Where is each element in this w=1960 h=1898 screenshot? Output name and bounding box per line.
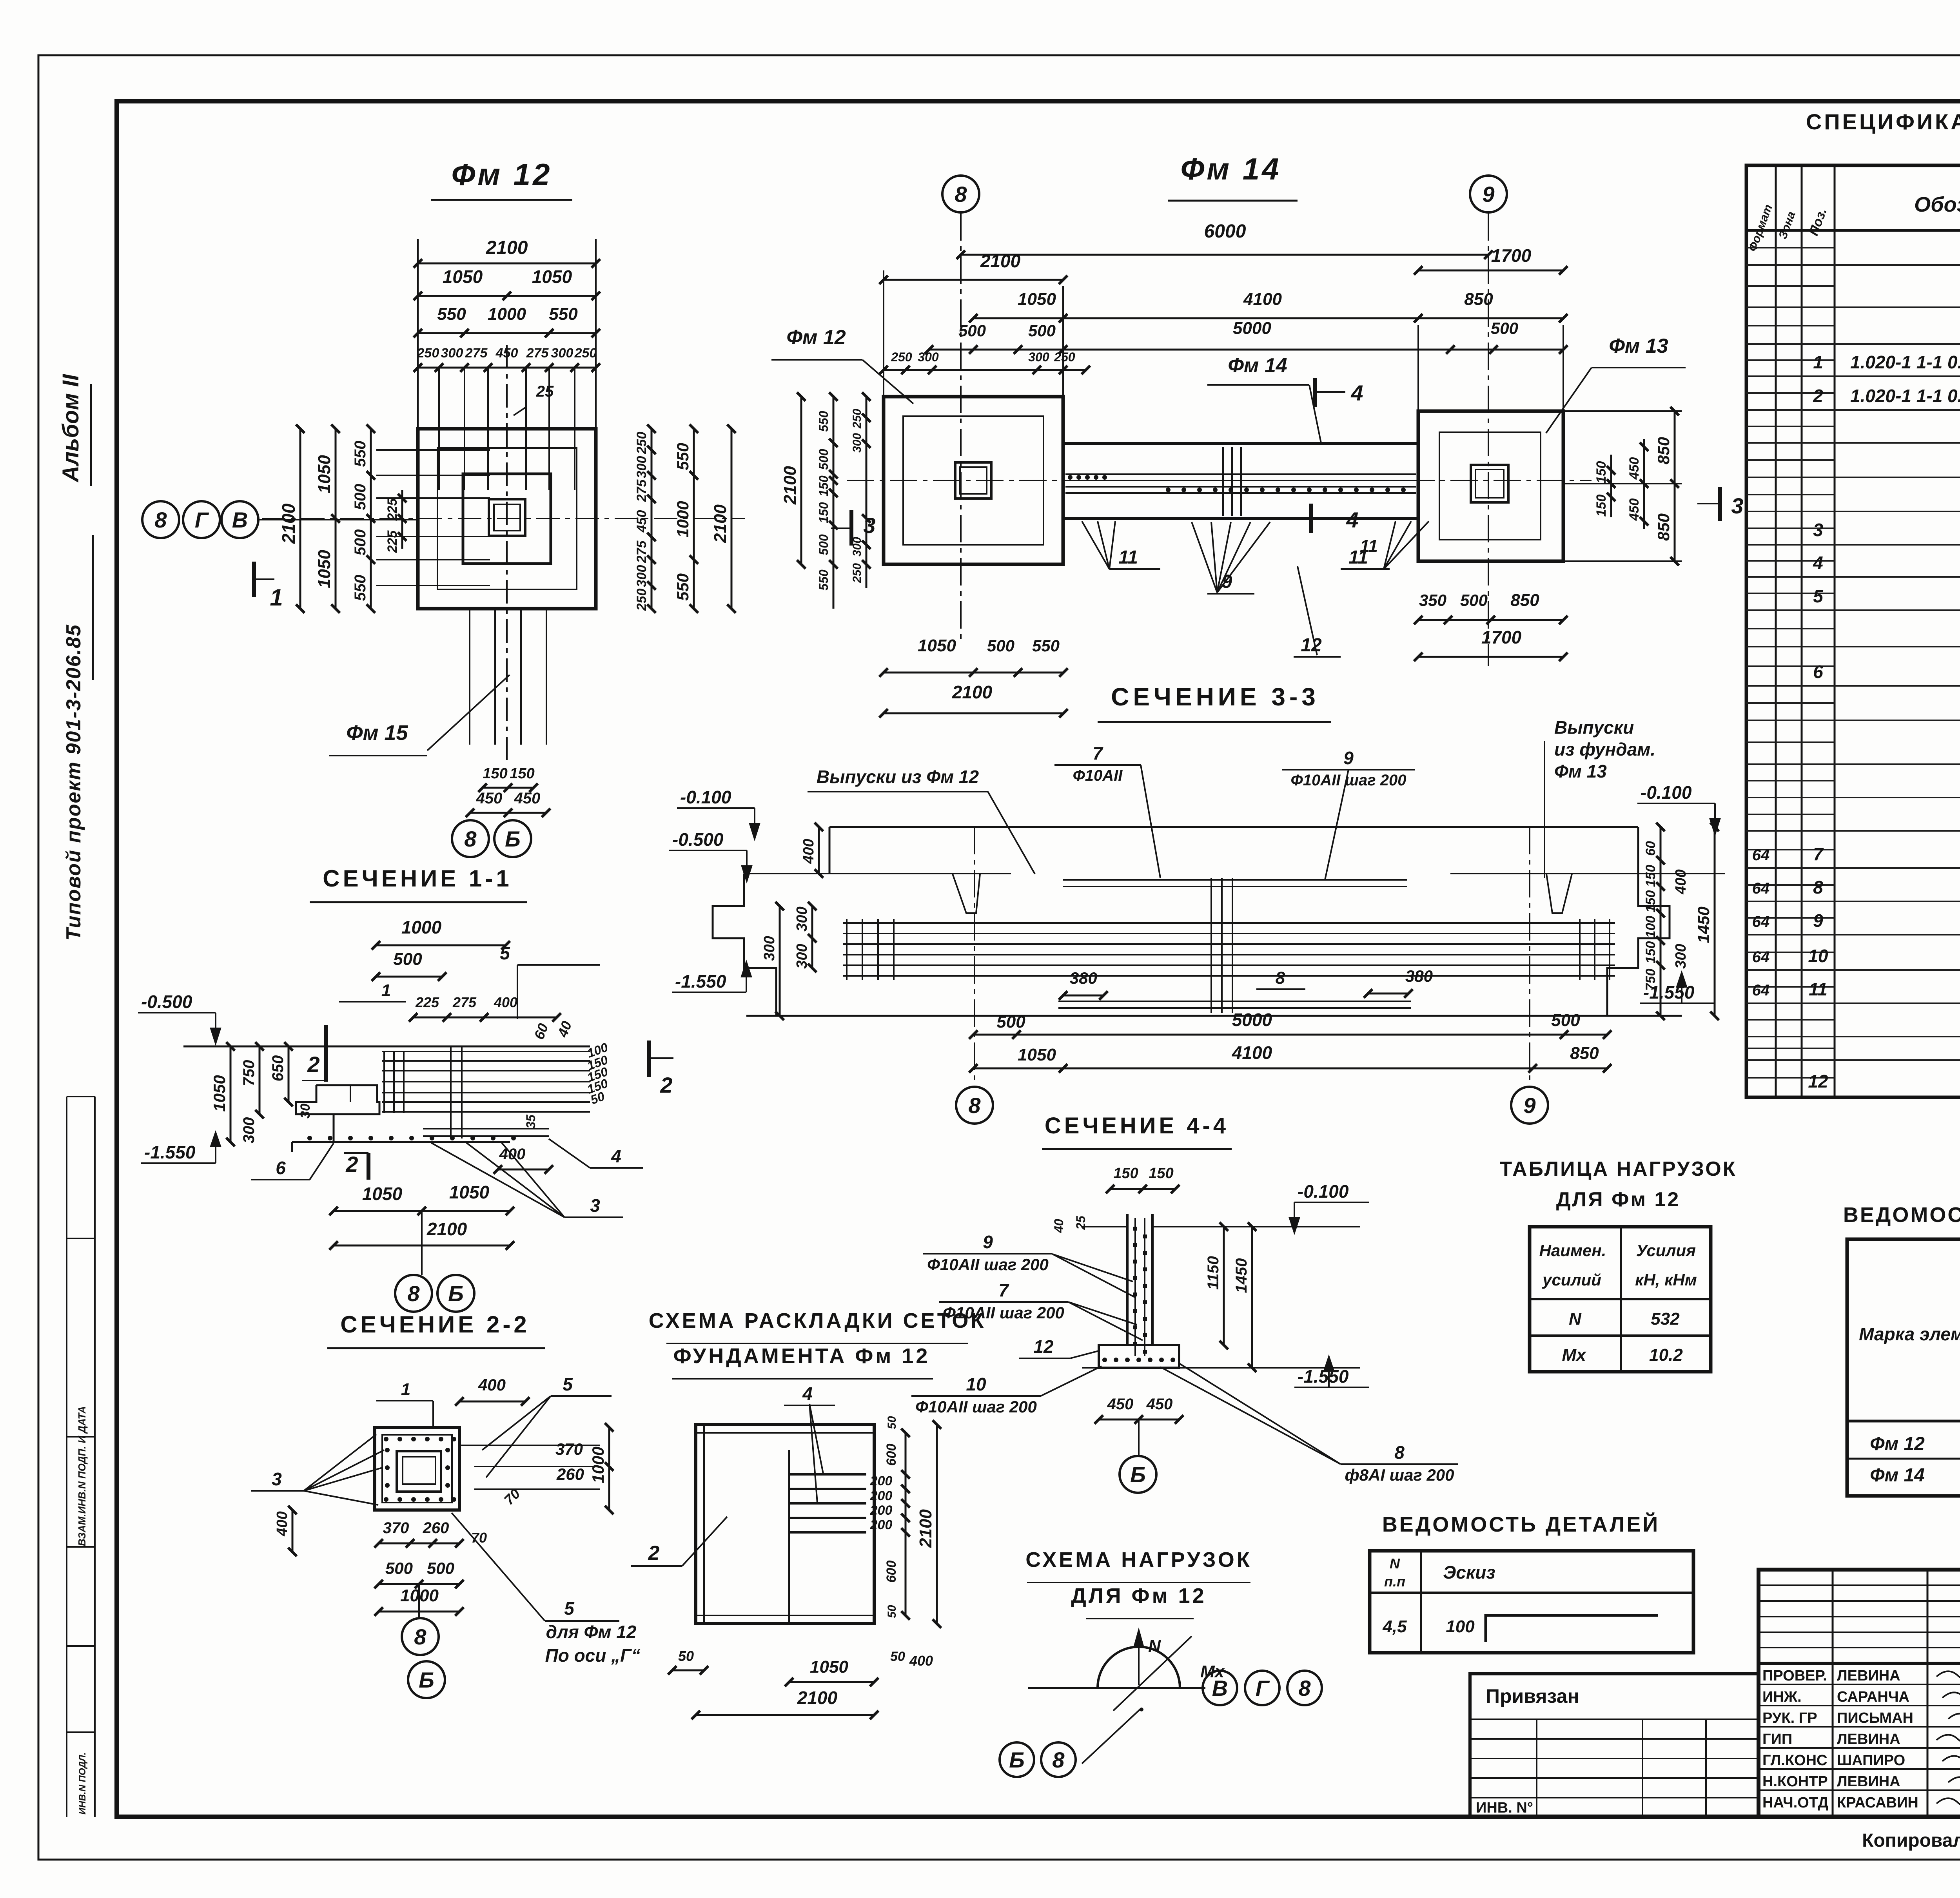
svg-text:ТАБЛИЦА НАГРУЗОК: ТАБЛИЦА НАГРУЗОК — [1500, 1158, 1737, 1180]
S11 section mark 2 top — [324, 1025, 328, 1082]
svg-text:8: 8 — [968, 1093, 981, 1118]
svg-text:4100: 4100 — [1243, 290, 1282, 309]
svg-text:250: 250 — [574, 346, 597, 361]
svg-text:850: 850 — [1654, 513, 1673, 541]
svg-text:Б: Б — [1130, 1462, 1146, 1487]
svg-text:2: 2 — [660, 1073, 672, 1097]
svg-text:550: 550 — [437, 305, 466, 324]
title block outer — [1759, 1570, 1960, 1817]
svg-text:3: 3 — [590, 1195, 600, 1216]
svg-text:Фм 13: Фм 13 — [1609, 335, 1668, 357]
svg-text:2100: 2100 — [278, 503, 299, 544]
FM12 axis lines — [262, 518, 745, 519]
S33 middle vertical bars — [1210, 878, 1212, 1013]
svg-text:Б: Б — [419, 1668, 434, 1692]
FM14 strip mesh dots — [1166, 488, 1171, 492]
svg-text:ГЛ.КОНС: ГЛ.КОНС — [1762, 1752, 1827, 1769]
svg-text:Ф10АII: Ф10АII — [1073, 767, 1123, 784]
load scheme diagonal — [1113, 1636, 1192, 1711]
S11 rebar comb lines — [382, 1051, 590, 1052]
svg-text:-1.550: -1.550 — [675, 971, 726, 992]
svg-text:Г: Г — [195, 508, 209, 532]
svg-text:Б: Б — [448, 1281, 464, 1306]
svg-text:Mx: Mx — [1562, 1345, 1586, 1365]
svg-text:Привязан: Привязан — [1486, 1685, 1579, 1707]
S33 left ledge -0.500 — [744, 873, 1011, 874]
svg-text:ЛЕВИНА: ЛЕВИНА — [1837, 1731, 1900, 1748]
spec table frame — [1746, 165, 1960, 1097]
svg-text:200: 200 — [870, 1488, 893, 1503]
svg-text:Фм 14: Фм 14 — [1228, 354, 1287, 377]
FM12 plan middle square — [437, 448, 577, 589]
svg-text:Фм 13: Фм 13 — [1554, 761, 1607, 781]
svg-text:3: 3 — [1731, 493, 1743, 518]
svg-text:300: 300 — [851, 433, 864, 453]
svg-text:1: 1 — [381, 981, 391, 1000]
svg-text:150: 150 — [1113, 1165, 1138, 1182]
svg-text:250: 250 — [851, 409, 864, 429]
FM14 right pad column outer — [1471, 465, 1508, 502]
svg-text:150: 150 — [510, 765, 534, 782]
FM14 left pad column inner — [960, 467, 987, 494]
svg-text:150: 150 — [483, 765, 507, 782]
svg-text:2: 2 — [1813, 386, 1823, 406]
svg-text:275: 275 — [634, 540, 649, 564]
FM12 column section outer — [489, 499, 525, 536]
svg-text:25: 25 — [1074, 1215, 1088, 1230]
details list frame — [1370, 1551, 1693, 1653]
svg-text:8: 8 — [154, 508, 167, 532]
FM14 right pad outer — [1418, 411, 1563, 561]
S33 bottom mesh lines — [1058, 1001, 1411, 1002]
svg-text:275: 275 — [634, 479, 649, 502]
svg-text:ВЕДОМОСТЬ РАСХОДА СТАЛИ НА ЭЛЕ: ВЕДОМОСТЬ РАСХОДА СТАЛИ НА ЭЛЕМЕНТ, КГ — [1843, 1203, 1960, 1227]
svg-text:400: 400 — [274, 1511, 290, 1536]
svg-text:9: 9 — [1523, 1093, 1535, 1118]
svg-text:200: 200 — [870, 1503, 893, 1518]
svg-text:64: 64 — [1752, 948, 1770, 966]
svg-text:Фм 12: Фм 12 — [786, 326, 846, 349]
svg-text:Б: Б — [505, 827, 521, 851]
svg-text:60: 60 — [1643, 841, 1658, 856]
svg-text:500: 500 — [1491, 319, 1518, 337]
S11 axis circles 8 B — [395, 1275, 432, 1312]
svg-text:4100: 4100 — [1232, 1042, 1272, 1063]
mesh scheme right dim line — [905, 1433, 907, 1615]
svg-text:50: 50 — [886, 1416, 898, 1429]
svg-text:5: 5 — [564, 1598, 575, 1619]
svg-text:-0.100: -0.100 — [680, 787, 731, 807]
svg-text:100: 100 — [1643, 916, 1658, 938]
svg-text:550: 550 — [352, 575, 369, 601]
mesh scheme square outer — [696, 1425, 874, 1624]
svg-text:Б: Б — [1009, 1748, 1025, 1772]
svg-text:-0.100: -0.100 — [1298, 1181, 1349, 1202]
svg-text:1: 1 — [1813, 352, 1823, 372]
svg-text:усилий: усилий — [1542, 1271, 1601, 1289]
svg-text:Фм 15: Фм 15 — [346, 721, 408, 745]
svg-text:250: 250 — [634, 432, 649, 455]
svg-text:400: 400 — [800, 839, 817, 864]
svg-text:СХЕМА НАГРУЗОК: СХЕМА НАГРУЗОК — [1025, 1548, 1252, 1572]
svg-text:550: 550 — [549, 305, 578, 324]
svg-text:400: 400 — [478, 1376, 506, 1394]
svg-text:750: 750 — [1643, 969, 1658, 991]
FM14 left pad column outer — [955, 462, 991, 499]
svg-text:1050: 1050 — [1018, 290, 1056, 309]
svg-text:Типовой проект 901-3-206: Типовой проект 901-3-206.85 — [62, 624, 85, 941]
svg-text:1000: 1000 — [488, 305, 526, 324]
S33 right stepped foundation outline — [1607, 874, 1670, 1016]
svg-text:8: 8 — [464, 827, 477, 851]
svg-text:150: 150 — [1149, 1165, 1173, 1182]
svg-text:1050: 1050 — [1018, 1045, 1056, 1064]
svg-text:500: 500 — [427, 1559, 454, 1577]
svg-text:150: 150 — [1594, 495, 1609, 517]
svg-text:8: 8 — [1052, 1748, 1065, 1772]
load scheme half circle — [1098, 1647, 1180, 1688]
S33 chute left — [953, 874, 980, 913]
FM12 plan inner square — [463, 474, 551, 564]
svg-text:1050: 1050 — [362, 1184, 403, 1204]
svg-text:ИНВ.N ПОДЛ.: ИНВ.N ПОДЛ. — [77, 1752, 88, 1815]
svg-text:N: N — [1148, 1637, 1161, 1656]
svg-text:300: 300 — [761, 936, 778, 961]
svg-text:ДЛЯ Фм 12: ДЛЯ Фм 12 — [1071, 1584, 1206, 1608]
svg-text:300: 300 — [918, 350, 939, 364]
svg-text:Ф10АII шаг 200: Ф10АII шаг 200 — [943, 1303, 1064, 1322]
S11 bottom mesh — [423, 1128, 549, 1129]
FM14 right pad column inner — [1475, 470, 1504, 498]
S22 column squares — [397, 1451, 441, 1492]
svg-text:1050: 1050 — [449, 1182, 490, 1202]
svg-text:2: 2 — [307, 1052, 319, 1077]
svg-text:СЕЧЕНИЕ 4-4: СЕЧЕНИЕ 4-4 — [1045, 1113, 1229, 1138]
svg-text:1: 1 — [270, 584, 283, 611]
FM12 axis circles 8 G V — [142, 501, 179, 538]
svg-text:8: 8 — [1813, 877, 1823, 897]
svg-text:Фм 14: Фм 14 — [1870, 1465, 1925, 1486]
svg-text:8: 8 — [955, 182, 967, 207]
svg-text:5000: 5000 — [1233, 319, 1271, 338]
S33 left stepped foundation outline — [713, 874, 776, 1016]
svg-text:8: 8 — [1298, 1676, 1311, 1700]
S33 axis circle 8 — [956, 1087, 993, 1124]
svg-text:50: 50 — [890, 1649, 905, 1664]
svg-text:500: 500 — [958, 321, 986, 340]
privyazan columns — [1536, 1719, 1537, 1817]
svg-text:300: 300 — [794, 906, 810, 931]
svg-text:850: 850 — [1464, 290, 1493, 309]
svg-text:ИНВ. N°: ИНВ. N° — [1476, 1800, 1533, 1816]
svg-text:СЕЧЕНИЕ 3-3: СЕЧЕНИЕ 3-3 — [1111, 683, 1319, 711]
svg-text:500: 500 — [996, 1012, 1025, 1031]
load scheme dot leader — [1082, 1709, 1141, 1764]
svg-text:150: 150 — [1643, 941, 1658, 964]
svg-text:10.2: 10.2 — [1649, 1345, 1683, 1365]
svg-text:600: 600 — [884, 1444, 899, 1466]
svg-text:500: 500 — [987, 636, 1014, 655]
svg-text:Н.КОНТР: Н.КОНТР — [1762, 1773, 1828, 1790]
svg-text:500: 500 — [817, 449, 831, 470]
svg-text:ФУНДАМЕНТА Фм 12: ФУНДАМЕНТА Фм 12 — [673, 1344, 930, 1368]
privyazan table frame — [1470, 1674, 1759, 1817]
FM14 left pad inner — [903, 416, 1044, 545]
svg-text:По оси „Г“: По оси „Г“ — [545, 1645, 641, 1666]
svg-text:ВЗАМ.ИНВ.N ПОДП. И ДАТА: ВЗАМ.ИНВ.N ПОДП. И ДАТА — [76, 1406, 88, 1546]
S11 mesh verticals middle — [450, 1047, 452, 1138]
svg-text:550: 550 — [817, 569, 831, 591]
svg-text:НАЧ.ОТД: НАЧ.ОТД — [1762, 1795, 1828, 1811]
FM14 section mark 4 upper — [1313, 378, 1317, 407]
svg-text:400: 400 — [909, 1653, 933, 1669]
svg-text:КРАСАВИН: КРАСАВИН — [1837, 1795, 1918, 1811]
svg-text:1450: 1450 — [1233, 1258, 1250, 1293]
steel table frame — [1847, 1239, 1960, 1496]
svg-text:850: 850 — [1654, 437, 1673, 464]
svg-text:3: 3 — [1813, 520, 1823, 540]
svg-text:Г: Г — [1256, 1676, 1270, 1700]
load scheme circles B 8 — [1000, 1742, 1034, 1777]
svg-text:Эскиз: Эскиз — [1443, 1562, 1495, 1583]
svg-text:-1.550: -1.550 — [1298, 1366, 1349, 1387]
svg-text:450: 450 — [1627, 457, 1642, 480]
svg-text:2100: 2100 — [780, 466, 800, 505]
title block left mini rows — [1759, 1584, 1960, 1586]
svg-text:300: 300 — [634, 456, 649, 479]
svg-text:2100: 2100 — [980, 251, 1021, 271]
svg-text:для Фм 12: для Фм 12 — [546, 1622, 637, 1642]
svg-text:8: 8 — [407, 1281, 420, 1306]
svg-text:1050: 1050 — [918, 636, 956, 655]
svg-text:300: 300 — [634, 565, 649, 587]
svg-text:1050: 1050 — [315, 550, 334, 588]
privyazan rows — [1470, 1719, 1759, 1720]
svg-text:4,5: 4,5 — [1382, 1617, 1407, 1636]
svg-text:1700: 1700 — [1481, 627, 1522, 647]
svg-text:275: 275 — [526, 346, 549, 361]
title block personnel rows — [1759, 1684, 1960, 1685]
svg-text:2100: 2100 — [916, 1509, 935, 1548]
S11 base slab — [292, 1141, 510, 1143]
FM14 section mark 3 left — [849, 510, 853, 546]
FM14 left pad outer — [884, 397, 1063, 564]
svg-text:9: 9 — [983, 1232, 993, 1252]
svg-text:450: 450 — [634, 510, 649, 533]
svg-text:64: 64 — [1752, 847, 1770, 864]
svg-text:7: 7 — [998, 1280, 1009, 1300]
svg-text:1450: 1450 — [1694, 906, 1713, 943]
svg-text:5: 5 — [563, 1374, 573, 1394]
svg-text:380: 380 — [1070, 969, 1097, 987]
FM14 extension verticals — [1062, 286, 1064, 444]
svg-text:7: 7 — [1093, 743, 1103, 763]
S22 square outer — [375, 1427, 459, 1510]
S33 right ledge — [1450, 873, 1725, 874]
FM14 strip middle vertical bars — [1222, 447, 1224, 516]
svg-text:260: 260 — [556, 1465, 584, 1483]
svg-text:11: 11 — [1118, 547, 1138, 568]
svg-text:225: 225 — [415, 994, 439, 1010]
svg-text:400: 400 — [494, 994, 517, 1010]
S33 axis circle 9 — [1511, 1087, 1548, 1124]
svg-text:ГИП: ГИП — [1762, 1731, 1792, 1748]
svg-text:1000: 1000 — [401, 917, 442, 937]
svg-text:Марка элемента: Марка элемента — [1859, 1324, 1960, 1344]
svg-text:1.020-1 1-1 0.010 -06: 1.020-1 1-1 0.010 -06 — [1850, 352, 1960, 372]
S33 base line -1.550 — [746, 1015, 1682, 1017]
svg-text:850: 850 — [1510, 591, 1539, 610]
svg-text:380: 380 — [1405, 967, 1433, 985]
svg-text:4: 4 — [611, 1146, 621, 1166]
svg-text:Фм 12: Фм 12 — [451, 157, 552, 192]
svg-text:500: 500 — [1460, 591, 1488, 609]
svg-text:30: 30 — [298, 1104, 313, 1118]
spec table row lines — [1746, 264, 1960, 266]
svg-text:40: 40 — [1052, 1219, 1066, 1233]
svg-text:Копировал: Коршунова: Копировал: Коршунова — [1862, 1830, 1960, 1851]
FM12 section mark 1 left — [252, 562, 256, 597]
svg-text:САРАНЧА: САРАНЧА — [1837, 1689, 1909, 1705]
svg-text:N: N — [1390, 1555, 1400, 1572]
svg-text:1700: 1700 — [1491, 245, 1532, 266]
svg-text:Ф10АII шаг 200: Ф10АII шаг 200 — [915, 1398, 1037, 1416]
svg-text:ПИСЬМАН: ПИСЬМАН — [1837, 1710, 1913, 1726]
svg-text:2100: 2100 — [797, 1688, 838, 1708]
svg-text:4: 4 — [1813, 553, 1823, 573]
svg-text:В: В — [232, 508, 248, 532]
svg-text:2100: 2100 — [711, 504, 730, 543]
svg-text:35: 35 — [524, 1114, 538, 1129]
svg-text:300: 300 — [551, 346, 573, 361]
svg-text:650: 650 — [269, 1055, 287, 1082]
svg-text:550: 550 — [673, 443, 692, 470]
S44 column lines — [1126, 1214, 1129, 1345]
svg-text:5000: 5000 — [1232, 1010, 1272, 1030]
S44 top floor line — [1152, 1226, 1360, 1227]
svg-text:ШАПИРО: ШАПИРО — [1837, 1752, 1905, 1769]
svg-text:10: 10 — [966, 1374, 986, 1394]
svg-text:500: 500 — [352, 529, 369, 556]
svg-text:-0.500: -0.500 — [141, 992, 192, 1012]
svg-text:N: N — [1569, 1309, 1582, 1329]
svg-text:532: 532 — [1651, 1309, 1680, 1329]
svg-text:Усилия: Усилия — [1636, 1241, 1696, 1260]
svg-text:11: 11 — [1809, 979, 1828, 999]
svg-text:300: 300 — [441, 346, 463, 361]
svg-text:6000: 6000 — [1204, 221, 1246, 242]
FM14 strip bottom edge — [1063, 517, 1418, 520]
svg-text:250: 250 — [891, 350, 912, 364]
S11 section mark 2 bottom — [367, 1153, 370, 1180]
svg-text:100: 100 — [1446, 1617, 1475, 1636]
svg-text:ВЕДОМОСТЬ ДЕТАЛЕЙ: ВЕДОМОСТЬ ДЕТАЛЕЙ — [1382, 1512, 1660, 1536]
FM14 strip mesh lines — [1065, 473, 1416, 475]
svg-text:СПЕЦИФИКАЦИЯ МОНОЛИТНЫХ ФУНД: СПЕЦИФИКАЦИЯ МОНОЛИТНЫХ ФУНДАМЕНТОВ — [1806, 109, 1960, 134]
svg-text:1050: 1050 — [315, 455, 334, 493]
svg-text:370: 370 — [555, 1440, 583, 1458]
svg-text:8: 8 — [414, 1624, 426, 1649]
svg-text:200: 200 — [870, 1474, 893, 1488]
svg-text:25: 25 — [536, 383, 554, 400]
S22 square second — [382, 1435, 452, 1503]
S44 footing — [1099, 1345, 1179, 1368]
svg-text:7: 7 — [1813, 844, 1824, 864]
svg-text:В: В — [1212, 1676, 1228, 1700]
svg-text:500: 500 — [385, 1559, 413, 1577]
svg-text:9: 9 — [1813, 910, 1823, 931]
title block verticals — [1832, 1570, 1834, 1817]
svg-text:1: 1 — [401, 1380, 410, 1399]
svg-text:Наимен.: Наимен. — [1539, 1241, 1606, 1260]
svg-text:кН, кНм: кН, кНм — [1635, 1271, 1697, 1289]
svg-text:6: 6 — [276, 1158, 286, 1178]
svg-text:1150: 1150 — [1205, 1256, 1222, 1290]
load scheme axis circles V G 8 — [1203, 1671, 1237, 1705]
svg-text:2100: 2100 — [952, 682, 993, 702]
svg-text:11: 11 — [1348, 547, 1368, 568]
svg-text:ИНЖ.: ИНЖ. — [1762, 1689, 1802, 1705]
FM12 left dim extension lines — [376, 449, 490, 451]
svg-text:64: 64 — [1752, 982, 1770, 999]
svg-text:8: 8 — [1276, 968, 1285, 988]
svg-text:Выпуски: Выпуски — [1554, 717, 1634, 738]
svg-text:1000: 1000 — [589, 1447, 607, 1483]
spec table left col extra lines — [1746, 247, 1835, 248]
FM12 plan outer square — [418, 429, 596, 609]
svg-text:450: 450 — [476, 790, 503, 807]
svg-text:-0.100: -0.100 — [1641, 782, 1692, 803]
svg-text:Ф10АII шаг 200: Ф10АII шаг 200 — [1291, 772, 1406, 789]
svg-text:12: 12 — [1301, 635, 1322, 656]
svg-text:3: 3 — [272, 1469, 282, 1489]
svg-text:50: 50 — [678, 1648, 694, 1664]
svg-text:450: 450 — [514, 790, 541, 807]
svg-text:12: 12 — [1033, 1336, 1054, 1357]
svg-text:64: 64 — [1752, 913, 1770, 930]
svg-text:Альбом II: Альбом II — [58, 373, 83, 483]
svg-text:400: 400 — [1673, 869, 1689, 894]
svg-text:250: 250 — [851, 563, 864, 583]
svg-text:СЕЧЕНИЕ 2-2: СЕЧЕНИЕ 2-2 — [340, 1311, 530, 1338]
svg-text:275: 275 — [465, 346, 488, 361]
svg-text:5: 5 — [1813, 586, 1824, 606]
svg-text:225: 225 — [385, 498, 400, 521]
S22 rebar dots — [384, 1437, 388, 1441]
svg-text:8: 8 — [1394, 1442, 1405, 1463]
load table frame — [1530, 1227, 1711, 1372]
FM14 axis circle 8 — [942, 176, 979, 212]
svg-text:450: 450 — [1146, 1396, 1173, 1413]
svg-text:300: 300 — [1673, 944, 1689, 968]
svg-text:12: 12 — [1808, 1071, 1828, 1091]
svg-text:550: 550 — [352, 441, 369, 467]
svg-text:ЛЕВИНА: ЛЕВИНА — [1837, 1668, 1900, 1684]
svg-text:250: 250 — [417, 346, 439, 361]
spec table verticals — [1775, 165, 1777, 1097]
svg-text:2100: 2100 — [486, 237, 528, 258]
FM14 axis circle 9 — [1470, 176, 1507, 212]
svg-text:550: 550 — [817, 411, 831, 432]
svg-text:4: 4 — [1350, 381, 1363, 405]
FM14 right pad inner — [1439, 432, 1541, 540]
svg-text:5: 5 — [500, 943, 510, 963]
svg-text:ПРОВЕР.: ПРОВЕР. — [1762, 1668, 1827, 1684]
svg-text:1050: 1050 — [443, 266, 483, 287]
S33 upper mesh lines — [1063, 879, 1407, 881]
svg-text:СЕЧЕНИЕ 1-1: СЕЧЕНИЕ 1-1 — [323, 865, 512, 892]
FM14 section mark 3 right — [1718, 487, 1722, 521]
